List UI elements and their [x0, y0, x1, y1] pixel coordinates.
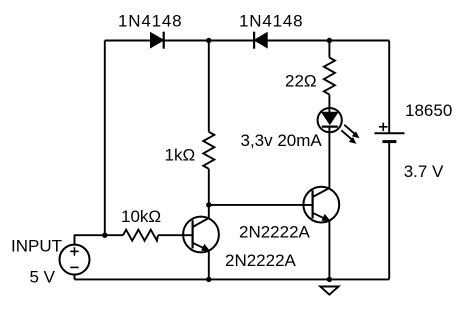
battery BT1 18650	[375, 123, 405, 142]
svg-text:1kΩ: 1kΩ	[165, 145, 196, 164]
junction node input	[102, 233, 107, 238]
svg-text:3,3v 20mA: 3,3v 20mA	[241, 131, 323, 150]
svg-text:2N2222A: 2N2222A	[239, 222, 311, 241]
svg-text:10kΩ: 10kΩ	[121, 207, 161, 226]
wire LED to Q2 collector	[328, 127, 330, 189]
svg-text:1N4148: 1N4148	[118, 11, 182, 30]
wire right-middle branch top	[328, 41, 330, 58]
diode D1 1N4148	[151, 32, 164, 49]
svg-text:1N4148: 1N4148	[239, 11, 303, 30]
transistor Q2 2N2222A	[303, 187, 339, 223]
wire Q2 emitter to bottom rail	[328, 220, 330, 279]
wire top rail	[105, 40, 389, 42]
wire right rail upper	[388, 41, 390, 134]
ground	[320, 287, 338, 295]
wire 22ohm to LED	[328, 95, 330, 113]
wire right rail lower	[388, 142, 390, 280]
svg-text:2N2222A: 2N2222A	[225, 251, 297, 270]
wire Q2 base	[209, 204, 313, 206]
junction node top right	[327, 38, 332, 43]
resistor 22ohm	[324, 58, 335, 95]
wire middle rail lower	[208, 169, 210, 219]
resistor 1k	[203, 132, 214, 169]
voltage source V1	[60, 245, 90, 275]
junction node Q2 base	[206, 202, 211, 207]
LED light arrow 1	[344, 125, 359, 138]
svg-text:INPUT: INPUT	[11, 237, 62, 256]
diode D2 1N4148	[254, 32, 267, 49]
LED D3	[318, 108, 342, 132]
wire input source top	[75, 235, 124, 245]
svg-text:18650: 18650	[405, 101, 452, 120]
junction node top middle	[206, 38, 211, 43]
svg-text:3.7 V: 3.7 V	[404, 162, 444, 181]
junction node ground	[327, 277, 332, 282]
wire bottom rail	[75, 278, 390, 280]
svg-text:5 V: 5 V	[30, 268, 56, 287]
wire Q1 emitter to bottom rail	[208, 250, 210, 279]
resistor 10k	[123, 230, 158, 241]
wire 10k to Q1 base	[158, 234, 193, 236]
LED light arrow 2	[341, 130, 356, 144]
junction node Q1 emitter bottom	[206, 277, 211, 282]
wire input source bottom	[74, 274, 76, 279]
transistor Q1 2N2222A	[183, 217, 219, 253]
svg-text:22Ω: 22Ω	[285, 72, 317, 91]
wire middle rail upper	[208, 41, 210, 132]
wire left rail	[104, 41, 106, 236]
